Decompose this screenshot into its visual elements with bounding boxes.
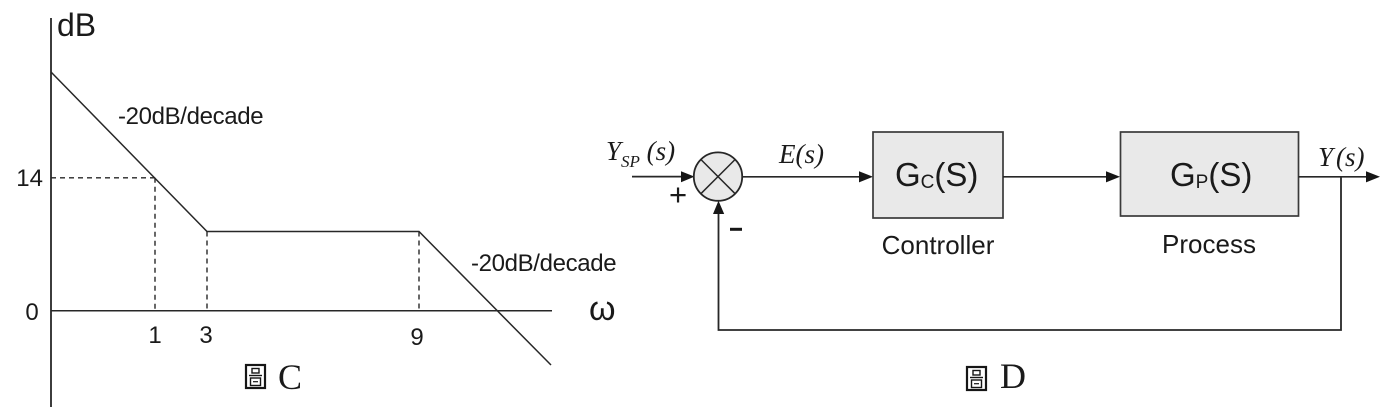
svg-text:-20dB/decade: -20dB/decade xyxy=(118,103,263,130)
svg-text:dB: dB xyxy=(57,7,96,43)
svg-text:0: 0 xyxy=(25,299,38,326)
caption figure D glyph tu xyxy=(967,367,986,390)
svg-text:3: 3 xyxy=(199,322,212,349)
svg-text:9: 9 xyxy=(410,324,423,351)
dashed guide omega=3 vertical xyxy=(206,232,208,311)
error wire xyxy=(742,176,861,178)
block GP xyxy=(1121,132,1299,216)
svg-text:Y(s): Y(s) xyxy=(1318,142,1365,172)
svg-text:E(s): E(s) xyxy=(778,139,824,169)
svg-text:+: + xyxy=(669,177,687,212)
svg-text:Controller: Controller xyxy=(882,230,995,260)
process wire xyxy=(1003,176,1108,178)
output wire xyxy=(1299,176,1369,178)
dashed guide 14dB horizontal xyxy=(51,177,155,179)
x-axis xyxy=(51,310,552,312)
minus sign xyxy=(730,228,742,231)
dashed guide omega=1 vertical xyxy=(154,178,156,311)
svg-text:ω: ω xyxy=(589,290,616,328)
svg-text:-20dB/decade: -20dB/decade xyxy=(471,250,616,277)
caption figure C glyph tu xyxy=(246,365,265,388)
svg-text:14: 14 xyxy=(16,165,43,192)
output arrowhead xyxy=(1366,171,1380,182)
input arrowhead xyxy=(681,171,695,182)
svg-text:YSP (s): YSP (s) xyxy=(606,136,675,171)
error arrowhead xyxy=(859,171,873,182)
summing junction xyxy=(694,152,742,200)
svg-text:D: D xyxy=(1000,356,1026,396)
svg-text:C: C xyxy=(278,357,302,397)
bode curve xyxy=(51,72,551,365)
svg-text:Process: Process xyxy=(1162,229,1256,259)
svg-text:GP(S): GP(S) xyxy=(1170,156,1252,193)
svg-text:1: 1 xyxy=(148,322,161,349)
feedback arrowhead xyxy=(713,201,724,214)
input wire xyxy=(632,176,683,178)
process arrowhead xyxy=(1106,171,1120,182)
feedback wire xyxy=(719,177,1342,330)
y-axis xyxy=(50,18,52,407)
svg-text:GC(S): GC(S) xyxy=(895,156,978,193)
dashed guide omega=9 vertical xyxy=(418,232,420,311)
block GC xyxy=(873,132,1003,218)
